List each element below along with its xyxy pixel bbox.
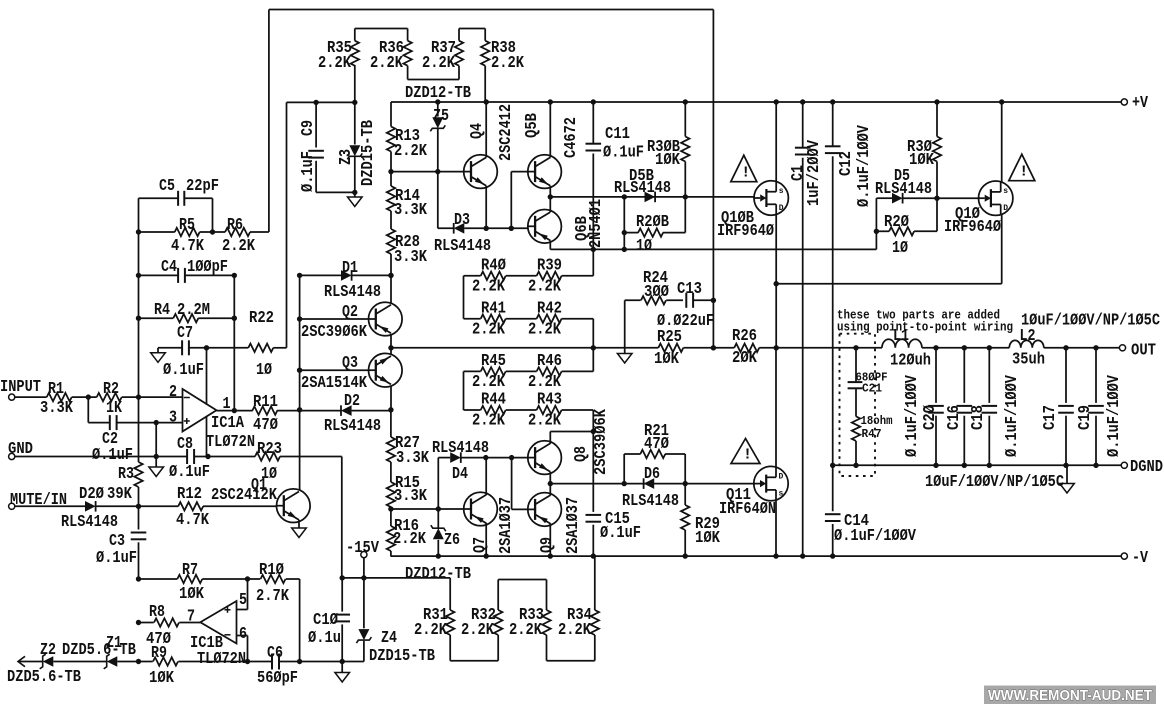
svg-text:R41: R41 (481, 299, 506, 318)
svg-text:1ØØpF: 1ØØpF (187, 257, 228, 276)
svg-text:1: 1 (223, 394, 231, 413)
svg-text:C11: C11 (605, 124, 630, 143)
svg-text:Q5B: Q5B (522, 113, 541, 138)
svg-text:RLS4148: RLS4148 (432, 438, 489, 457)
svg-text:INPUT: INPUT (0, 377, 41, 396)
svg-text:Z2: Z2 (40, 640, 56, 659)
svg-text:R2: R2 (103, 379, 119, 398)
svg-text:1Ø: 1Ø (636, 236, 652, 255)
svg-text:1Ø: 1Ø (892, 238, 908, 257)
svg-text:C4672: C4672 (561, 117, 580, 158)
svg-text:2.2K: 2.2K (472, 320, 505, 339)
svg-text:Ø.1uF/1ØØV: Ø.1uF/1ØØV (902, 375, 921, 457)
svg-text:2.2K: 2.2K (472, 411, 505, 430)
svg-text:2SC39Ø6K: 2SC39Ø6K (301, 322, 367, 341)
svg-text:Ø.1uF: Ø.1uF (163, 360, 204, 379)
svg-text:D6: D6 (644, 464, 660, 483)
svg-text:!: ! (1019, 164, 1028, 181)
svg-text:2.2K: 2.2K (509, 620, 542, 639)
svg-text:Ø.1uF: Ø.1uF (169, 462, 210, 481)
svg-text:2SC39Ø6K: 2SC39Ø6K (591, 409, 610, 475)
svg-text:R44: R44 (481, 390, 506, 409)
svg-text:R8: R8 (149, 602, 165, 621)
svg-text:R1Ø: R1Ø (259, 560, 284, 579)
svg-text:IRF964Ø: IRF964Ø (717, 221, 774, 240)
svg-text:R43: R43 (537, 390, 562, 409)
svg-text:C9: C9 (298, 120, 317, 136)
svg-text:22pF: 22pF (186, 176, 219, 195)
svg-text:2.2K: 2.2K (222, 236, 255, 255)
svg-text:C1Ø: C1Ø (313, 610, 338, 629)
svg-text:D: D (779, 473, 784, 482)
svg-text:2.2K: 2.2K (558, 620, 591, 639)
svg-text:DZD15-TB: DZD15-TB (369, 646, 435, 665)
svg-text:RLS4148: RLS4148 (324, 282, 381, 301)
svg-text:-V: -V (1132, 548, 1148, 567)
svg-text:2.2K: 2.2K (491, 53, 524, 72)
svg-text:2.2K: 2.2K (414, 620, 447, 639)
svg-text:R9: R9 (151, 643, 167, 662)
svg-text:C5: C5 (159, 176, 175, 195)
svg-text:R6: R6 (227, 215, 243, 234)
svg-text:DGND: DGND (1130, 457, 1163, 476)
svg-text:RLS4148: RLS4148 (434, 236, 491, 255)
svg-text:Ø.1uF/1ØØV: Ø.1uF/1ØØV (1002, 375, 1021, 457)
svg-text:56ØpF: 56ØpF (257, 668, 298, 687)
svg-text:IC1A: IC1A (211, 413, 244, 432)
svg-text:1ØK: 1ØK (909, 150, 934, 169)
svg-text:Ø.1uF: Ø.1uF (96, 548, 137, 567)
svg-text:C16: C16 (944, 405, 963, 430)
svg-text:2.2K: 2.2K (394, 141, 427, 160)
svg-text:!: ! (743, 447, 752, 464)
svg-text:2.2K: 2.2K (318, 53, 351, 72)
svg-text:Q9: Q9 (537, 537, 556, 553)
svg-text:Ø.1uF: Ø.1uF (603, 143, 644, 162)
svg-text:R22: R22 (249, 308, 274, 327)
svg-text:2.7K: 2.7K (256, 586, 289, 605)
svg-text:Q7: Q7 (470, 537, 489, 553)
svg-text:2.2K: 2.2K (528, 372, 561, 391)
svg-text:C19: C19 (1075, 405, 1094, 430)
svg-text:Z5: Z5 (433, 106, 449, 125)
svg-text:3.3K: 3.3K (394, 247, 427, 266)
svg-text:MUTE/IN: MUTE/IN (10, 490, 67, 509)
svg-text:Ø.1uF: Ø.1uF (600, 523, 641, 542)
svg-text:C2Ø: C2Ø (920, 405, 939, 430)
svg-text:s: s (1003, 187, 1008, 196)
svg-text:2SA1514K: 2SA1514K (301, 373, 367, 392)
svg-text:2SC2412K: 2SC2412K (211, 485, 277, 504)
svg-text:18ohm: 18ohm (861, 415, 893, 428)
svg-text:2.2K: 2.2K (528, 411, 561, 430)
svg-text:R4: R4 (154, 300, 170, 319)
svg-text:1Ø: 1Ø (256, 360, 272, 379)
svg-text:3.3K: 3.3K (394, 486, 427, 505)
svg-text:R46: R46 (537, 351, 562, 370)
svg-text:47Ø: 47Ø (644, 434, 669, 453)
svg-text:2.2K: 2.2K (472, 277, 505, 296)
svg-text:TLØ72N: TLØ72N (206, 432, 255, 451)
svg-text:R47: R47 (862, 428, 882, 441)
svg-text:3.3K: 3.3K (40, 398, 73, 417)
svg-text:Ø.1uF: Ø.1uF (92, 445, 133, 464)
svg-text:35uh: 35uh (1012, 350, 1045, 369)
svg-text:2.2K: 2.2K (472, 372, 505, 391)
svg-text:3ØØ: 3ØØ (644, 282, 669, 301)
svg-text:R12: R12 (177, 484, 202, 503)
svg-text:D4: D4 (452, 464, 468, 483)
svg-text:R45: R45 (481, 351, 506, 370)
svg-text:Q8: Q8 (571, 446, 590, 462)
svg-text:Ø.1uF/1ØØV: Ø.1uF/1ØØV (834, 526, 916, 545)
svg-text:R4Ø: R4Ø (481, 256, 506, 275)
svg-text:D2Ø: D2Ø (79, 484, 104, 503)
svg-text:OUT: OUT (1131, 341, 1156, 360)
svg-text:R11: R11 (253, 392, 278, 411)
svg-text:Z3: Z3 (336, 149, 355, 165)
svg-text:1ØK: 1ØK (655, 150, 680, 169)
svg-text:D: D (779, 204, 784, 213)
svg-text:1ØK: 1ØK (695, 528, 720, 547)
svg-text:1ØK: 1ØK (179, 584, 204, 603)
svg-text:DZD12-TB: DZD12-TB (405, 564, 471, 583)
svg-text:Ø.1uF/1ØØV: Ø.1uF/1ØØV (854, 125, 873, 207)
svg-text:-15V: -15V (346, 538, 379, 557)
svg-text:2.2M: 2.2M (177, 300, 210, 319)
svg-text:R42: R42 (537, 299, 562, 318)
svg-text:R5: R5 (179, 215, 195, 234)
svg-text:+V: +V (1132, 93, 1148, 112)
svg-text:1ØuF/1ØØV/NP/1Ø5C: 1ØuF/1ØØV/NP/1Ø5C (925, 472, 1064, 491)
svg-text:4.7K: 4.7K (171, 236, 204, 255)
svg-text:4.7K: 4.7K (176, 510, 209, 529)
svg-text:TLØ72N: TLØ72N (197, 649, 246, 668)
svg-text:Ø.1uF/1ØØV: Ø.1uF/1ØØV (1104, 375, 1123, 457)
svg-text:Ø.1u: Ø.1u (308, 628, 341, 647)
svg-text:2ØK: 2ØK (732, 348, 757, 367)
svg-text:IRF964Ø: IRF964Ø (944, 217, 1001, 236)
svg-text:2SA1Ø37: 2SA1Ø37 (563, 497, 582, 554)
svg-text:Q4: Q4 (467, 123, 486, 139)
svg-text:7: 7 (187, 607, 195, 626)
svg-text:3.3K: 3.3K (396, 448, 429, 467)
svg-text:2N54Ø1: 2N54Ø1 (586, 199, 605, 248)
svg-text:R23: R23 (257, 439, 282, 458)
svg-text:Q2: Q2 (342, 302, 358, 321)
svg-text:2.2K: 2.2K (393, 529, 426, 548)
svg-text:D3: D3 (454, 210, 470, 229)
svg-text:R26: R26 (732, 326, 757, 345)
svg-text:R2ØB: R2ØB (636, 212, 669, 231)
svg-text:2.2K: 2.2K (461, 620, 494, 639)
svg-text:R39: R39 (537, 256, 562, 275)
svg-text:47Ø: 47Ø (253, 415, 278, 434)
svg-text:R25: R25 (657, 327, 682, 346)
svg-text:2.2K: 2.2K (528, 277, 561, 296)
svg-text:s: s (779, 490, 784, 499)
svg-text:!: ! (741, 165, 750, 182)
svg-text:2.2K: 2.2K (370, 53, 403, 72)
svg-text:RLS4148: RLS4148 (622, 491, 679, 510)
svg-text:DZD5.6-TB: DZD5.6-TB (62, 640, 136, 659)
svg-text:GND: GND (8, 439, 33, 458)
svg-text:DZD15-TB: DZD15-TB (358, 120, 377, 186)
svg-text:2: 2 (169, 382, 177, 401)
svg-text:2SC2412: 2SC2412 (496, 104, 515, 161)
svg-text:WWW.REMONT-AUD.NET: WWW.REMONT-AUD.NET (988, 688, 1152, 704)
svg-text:C6: C6 (267, 643, 283, 662)
svg-text:2.2K: 2.2K (528, 320, 561, 339)
svg-text:C12: C12 (836, 151, 855, 176)
svg-text:1ØuF/1ØØV/NP/1Ø5C: 1ØuF/1ØØV/NP/1Ø5C (1021, 311, 1160, 330)
svg-text:D1: D1 (342, 258, 358, 277)
svg-text:DZD12-TB: DZD12-TB (405, 83, 471, 102)
svg-text:Z4: Z4 (381, 628, 397, 647)
svg-text:DZD5.6-TB: DZD5.6-TB (7, 667, 81, 686)
svg-text:5: 5 (239, 590, 247, 609)
svg-text:C7: C7 (177, 323, 193, 342)
svg-text:2SA1Ø37: 2SA1Ø37 (496, 497, 515, 554)
svg-text:2.2K: 2.2K (422, 53, 455, 72)
svg-text:C18: C18 (968, 405, 987, 430)
svg-text:Z6: Z6 (444, 530, 460, 549)
svg-text:RLS4148: RLS4148 (324, 416, 381, 435)
svg-text:Q3: Q3 (342, 353, 358, 372)
svg-text:RLS4148: RLS4148 (61, 512, 118, 531)
svg-text:R1: R1 (48, 379, 64, 398)
svg-text:1uF/2ØØV: 1uF/2ØØV (804, 140, 823, 206)
svg-text:C21: C21 (862, 383, 882, 396)
svg-text:RLS4148: RLS4148 (875, 179, 932, 198)
svg-text:D2: D2 (344, 391, 360, 410)
svg-text:C4: C4 (161, 257, 177, 276)
svg-text:3.3K: 3.3K (394, 200, 427, 219)
svg-text:R7: R7 (182, 560, 198, 579)
svg-text:3: 3 (169, 408, 177, 427)
svg-text:RLS4148: RLS4148 (614, 178, 671, 197)
svg-text:1K: 1K (106, 398, 122, 417)
svg-text:C13: C13 (677, 279, 702, 298)
svg-text:IRF64ØN: IRF64ØN (719, 499, 776, 518)
svg-text:Ø.1uF: Ø.1uF (298, 151, 317, 192)
svg-text:1ØK: 1ØK (654, 349, 679, 368)
svg-text:R2Ø: R2Ø (884, 212, 909, 231)
svg-text:C17: C17 (1040, 405, 1059, 430)
svg-text:1ØK: 1ØK (149, 668, 174, 687)
svg-text:6: 6 (239, 624, 247, 643)
svg-text:39K: 39K (107, 484, 132, 503)
svg-text:using point-to-point wiring: using point-to-point wiring (837, 321, 1013, 335)
svg-text:s: s (779, 187, 784, 196)
svg-text:C8: C8 (177, 434, 193, 453)
svg-text:12Øuh: 12Øuh (890, 351, 931, 370)
svg-text:D: D (1003, 204, 1008, 213)
svg-text:R3: R3 (118, 464, 134, 483)
